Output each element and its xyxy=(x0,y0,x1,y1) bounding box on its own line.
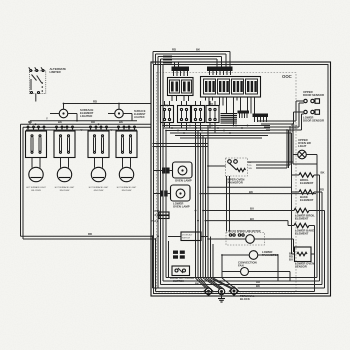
svg-text:2-8: 2-8 xyxy=(155,213,159,217)
svg-text:HOT SURFACE LIGHT: HOT SURFACE LIGHT xyxy=(55,186,75,189)
plug P2 xyxy=(207,67,233,76)
svg-text:HOT SURFACE LIGHT: HOT SURFACE LIGHT xyxy=(89,186,109,189)
door sensor upper xyxy=(296,90,324,103)
relay K1 xyxy=(161,101,174,128)
wire mid horizontals xyxy=(201,176,317,232)
svg-text:P13-2: P13-2 xyxy=(151,219,159,223)
svg-text:FAN: FAN xyxy=(238,264,244,268)
door switch lower xyxy=(170,266,194,283)
svg-text:LIGHTED: LIGHTED xyxy=(80,114,92,118)
svg-text:RD: RD xyxy=(91,120,95,124)
svg-text:BU: BU xyxy=(250,207,254,211)
relay K3 xyxy=(192,101,205,131)
svg-text:BK: BK xyxy=(321,171,325,175)
control box border xyxy=(151,62,331,296)
wire left inner bus xyxy=(163,64,169,281)
burner element 2 xyxy=(55,167,75,192)
svg-text:DOOR SENSOR: DOOR SENSOR xyxy=(303,93,324,97)
oven lamp assembly 2 xyxy=(153,185,190,209)
door sensor lower xyxy=(294,110,324,123)
svg-text:ELEMENT: ELEMENT xyxy=(295,217,309,221)
bake element lower xyxy=(288,223,315,235)
svg-text:8IN-2100W: 8IN-2100W xyxy=(60,190,70,192)
surface switch SW2 xyxy=(54,126,75,168)
svg-text:RD: RD xyxy=(320,188,324,192)
wire element feeds xyxy=(203,124,295,254)
svg-text:BK: BK xyxy=(249,190,253,194)
svg-text:DOOR ACT: DOOR ACT xyxy=(182,234,193,237)
indicator lamp A xyxy=(50,104,77,118)
wire left riser xyxy=(21,124,24,239)
burner element 3 xyxy=(89,167,109,192)
svg-text:ELEMENT: ELEMENT xyxy=(300,181,314,185)
svg-text:RD: RD xyxy=(88,232,92,236)
surface switch SW3 xyxy=(88,126,109,168)
svg-text:8IN-2100W: 8IN-2100W xyxy=(122,190,132,192)
connector comb J3 xyxy=(238,111,250,119)
label terminal block xyxy=(240,294,255,301)
surface switch SW4 xyxy=(116,126,137,168)
svg-text:OOC: OOC xyxy=(282,74,292,79)
svg-text:RD: RD xyxy=(93,100,97,104)
wire center bus xyxy=(196,126,209,279)
convection fan motor xyxy=(222,255,290,281)
svg-text:RD/WH: RD/WH xyxy=(291,128,298,130)
wire loop right xyxy=(161,155,325,292)
dashed control outline xyxy=(157,73,297,293)
contact stack xyxy=(221,114,238,124)
svg-text:BU: BU xyxy=(250,217,254,221)
wire loop 1 xyxy=(153,288,219,292)
wire unit link xyxy=(26,129,137,131)
svg-text:P2: P2 xyxy=(210,102,214,106)
terminal fan wires xyxy=(196,237,236,289)
surface unit circles drawn by script placeholder xyxy=(0,0,1,1)
svg-text:6IN-1250W: 6IN-1250W xyxy=(31,190,41,192)
alternate limiter block xyxy=(29,67,46,101)
svg-text:Y: Y xyxy=(46,117,48,121)
svg-text:BK: BK xyxy=(119,120,123,124)
svg-text:SWITCH: SWITCH xyxy=(182,238,190,240)
svg-text:HOT SURFACE LIGHT: HOT SURFACE LIGHT xyxy=(117,186,137,189)
svg-text:BU: BU xyxy=(289,258,293,262)
wire bus L2 xyxy=(23,126,151,128)
oven light lamp xyxy=(293,150,317,164)
connector ticks xyxy=(163,56,172,64)
oven lamp assembly 1 xyxy=(153,162,192,183)
wire right labels xyxy=(256,252,293,289)
svg-text:ELEMENT: ELEMENT xyxy=(300,198,314,202)
burner element 1 xyxy=(26,167,46,192)
broil element upper xyxy=(291,173,320,185)
svg-text:WH: WH xyxy=(249,168,253,170)
svg-text:OVEN LAMP: OVEN LAMP xyxy=(175,179,192,183)
wire bus L1 xyxy=(21,123,152,125)
lower fan motor xyxy=(222,250,279,281)
svg-text:BLOCK: BLOCK xyxy=(240,297,250,301)
relay K2 xyxy=(178,101,191,131)
label oven br light xyxy=(298,138,311,148)
svg-text:BK/WH: BK/WH xyxy=(291,125,298,127)
terminal block L2 xyxy=(230,287,239,295)
svg-text:HOT SURFACE LIGHT: HOT SURFACE LIGHT xyxy=(26,186,46,189)
wire bottom run xyxy=(21,232,156,291)
svg-text:SENSOR: SENSOR xyxy=(295,265,307,269)
indicator lamp B xyxy=(108,104,132,118)
wire right bundle xyxy=(258,121,302,133)
upper fan motor xyxy=(208,127,293,185)
svg-text:FAN MOTOR: FAN MOTOR xyxy=(262,253,279,257)
relay K4 xyxy=(206,101,219,133)
wire harness top xyxy=(153,52,230,289)
wire sensor drops xyxy=(294,101,304,130)
door switch upper xyxy=(168,232,208,241)
wire interunit xyxy=(30,114,137,125)
burner element 4 xyxy=(117,167,137,192)
surface switch SW1 xyxy=(26,126,47,168)
svg-text:6IN-1250W: 6IN-1250W xyxy=(94,190,104,192)
svg-text:RD: RD xyxy=(172,48,176,52)
wire mid bus xyxy=(153,126,271,147)
svg-text:FAN MOTOR: FAN MOTOR xyxy=(226,181,243,185)
svg-text:LIGHTED: LIGHTED xyxy=(134,116,145,119)
oven sensor box xyxy=(295,247,315,269)
connector body C1 xyxy=(168,78,194,102)
convection fan label xyxy=(238,261,257,268)
label surface element lighted xyxy=(80,108,94,118)
connector body C2 xyxy=(201,77,261,126)
terminal block L1 xyxy=(204,287,213,295)
svg-text:OVEN LAMP: OVEN LAMP xyxy=(173,205,190,209)
wire gauge labels xyxy=(28,48,325,286)
svg-text:LIGHT: LIGHT xyxy=(298,144,307,148)
svg-text:P1: P1 xyxy=(165,104,169,108)
svg-text:RD: RD xyxy=(28,120,32,124)
terminal block N ground xyxy=(218,288,225,302)
svg-text:ELEMENT: ELEMENT xyxy=(295,232,309,236)
broil element lower xyxy=(288,208,325,220)
svg-text:LIMITER: LIMITER xyxy=(50,70,61,74)
svg-text:DOOR SENSOR: DOOR SENSOR xyxy=(303,119,324,123)
wire labels stack xyxy=(173,251,185,259)
svg-text:BK: BK xyxy=(196,48,200,52)
connector comb J4 xyxy=(253,114,269,123)
svg-text:BK: BK xyxy=(58,120,62,124)
thermal fuse xyxy=(151,212,169,223)
label ALTERNATE LIMITER xyxy=(50,67,67,74)
bake element upper xyxy=(291,190,322,202)
label surface element lighted right xyxy=(134,110,146,119)
plug P1 xyxy=(172,62,190,76)
wire top indicator xyxy=(64,100,152,104)
speed line motor xyxy=(208,230,294,252)
